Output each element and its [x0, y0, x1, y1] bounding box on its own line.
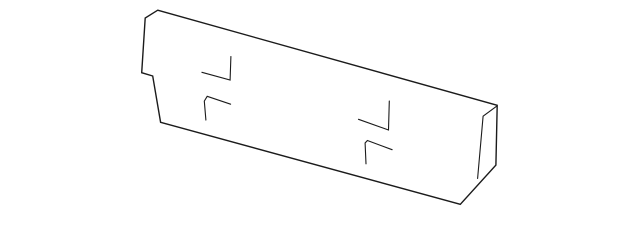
slot mark lower-left	[204, 96, 230, 120]
slot mark lower-right	[365, 141, 392, 164]
panel outline	[142, 10, 498, 204]
slot mark upper-left	[202, 57, 231, 81]
slot mark upper-right	[359, 101, 390, 130]
end cap inner edge	[478, 106, 497, 178]
